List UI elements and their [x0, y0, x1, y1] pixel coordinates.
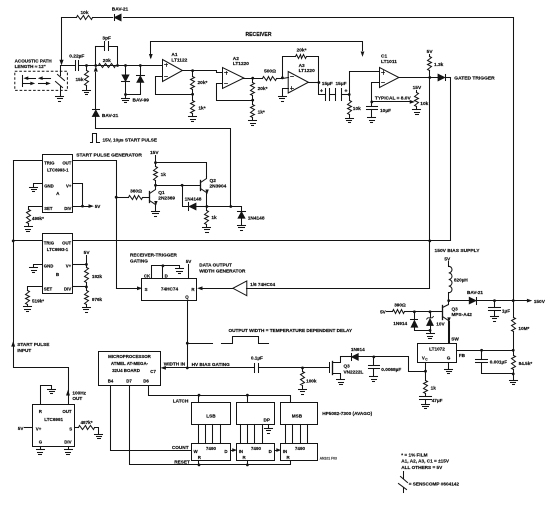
wire DIV B	[73, 286, 87, 288]
svg-text:SET: SET	[44, 206, 53, 211]
wire collector rail	[156, 163, 207, 177]
svg-text:OUT: OUT	[62, 160, 71, 165]
label CK D pins	[144, 273, 168, 278]
wire V+ B	[73, 264, 87, 266]
wire 150V out	[495, 299, 546, 305]
resistor 182k	[85, 265, 103, 287]
ground CK D tie	[176, 269, 184, 274]
diode 1N914 output	[341, 347, 374, 361]
resistor 10k after caps	[348, 95, 362, 118]
node start pulse to base	[115, 196, 118, 199]
node BAV-99 right	[139, 64, 142, 67]
ground DP	[265, 425, 273, 434]
wire gating line	[73, 240, 451, 242]
acoustic path arrows	[23, 76, 51, 87]
wire GND A	[34, 184, 43, 187]
legend transducer symbol	[399, 472, 408, 493]
wires mid display to 7490	[241, 425, 263, 444]
svg-text:INPUT: INPUT	[17, 348, 31, 353]
svg-text:B4: B4	[108, 379, 114, 384]
wire A1 output	[183, 71, 223, 73]
transistor Q3 MPS-A42	[431, 301, 473, 344]
svg-text:0.0068µF: 0.0068µF	[381, 367, 401, 372]
display MSB	[281, 403, 318, 425]
node C1 output	[428, 76, 431, 79]
diode BAV-21 gated trigger	[438, 74, 495, 81]
svg-text:TYPICAL = 8.0V: TYPICAL = 8.0V	[375, 95, 412, 101]
svg-text:MSB: MSB	[292, 414, 303, 419]
svg-text:RECEIVER-TRIGGER: RECEIVER-TRIGGER	[130, 252, 177, 257]
IC LTC6993-1 A	[43, 155, 73, 213]
svg-text:150V: 150V	[534, 299, 546, 305]
svg-text:1k: 1k	[431, 385, 437, 390]
supply 5V LTC6991	[18, 426, 33, 431]
svg-text:TRIG: TRIG	[44, 160, 55, 165]
IC 7490 a	[192, 444, 231, 461]
wire D6 latch	[149, 386, 291, 404]
svg-text:390Ω: 390Ω	[394, 302, 406, 307]
svg-text:START PULSE: START PULSE	[17, 342, 49, 347]
svg-text:BAV-99: BAV-99	[133, 98, 150, 104]
wire start pulse node	[207, 207, 242, 212]
supply 5V LTC6993 B	[84, 250, 91, 264]
svg-text:V+: V+	[36, 426, 42, 431]
label HV BIAS GATING	[192, 362, 231, 367]
svg-text:ACOUSTIC PATH: ACOUSTIC PATH	[15, 58, 53, 63]
capacitor 1uF	[489, 301, 511, 317]
svg-text:84.5k*: 84.5k*	[519, 361, 533, 366]
svg-text:47µF: 47µF	[432, 398, 443, 403]
node RECEIVER label line	[149, 32, 364, 59]
node DIV A	[81, 204, 101, 209]
svg-text:WIDTH GENERATOR: WIDTH GENERATOR	[199, 268, 246, 273]
svg-text:5V: 5V	[444, 257, 451, 263]
diode 1N4148 base clamp	[183, 186, 207, 211]
svg-text:2N3904: 2N3904	[210, 184, 227, 190]
ground LTC6993 A	[30, 188, 38, 192]
IC LTC6991	[33, 405, 75, 447]
IC 7490 c	[281, 444, 318, 461]
diode BAV-99 a	[122, 66, 130, 95]
wire inverter output to R	[198, 287, 233, 290]
svg-text:MICROPROCESSOR: MICROPROCESSOR	[108, 354, 152, 359]
resistor 10M*	[512, 301, 530, 351]
wire C1 output	[399, 77, 438, 79]
wire B4 count	[111, 386, 192, 451]
wire A3 output	[309, 82, 319, 84]
ground 1uF	[491, 317, 499, 322]
node zener bias	[429, 310, 432, 313]
svg-text:V+: V+	[66, 184, 72, 189]
ground VN2222L source	[337, 380, 345, 385]
node TRIG B bus	[12, 240, 15, 243]
wire A3 + input to ground	[283, 89, 289, 97]
node gating junction	[428, 240, 431, 243]
ground Q1 emitter	[152, 212, 160, 217]
note supply others	[401, 465, 443, 470]
resistor 100k	[301, 368, 317, 389]
node A1 output	[191, 69, 194, 72]
svg-text:SET: SET	[44, 286, 53, 291]
svg-text:TRIG: TRIG	[44, 240, 55, 245]
node Vc	[424, 370, 427, 373]
pulse symbol output width	[188, 337, 269, 344]
legend SENSCOMP label	[409, 481, 460, 486]
wire TRIG B to bus	[14, 240, 43, 242]
diode BAV-21 150V	[449, 290, 495, 305]
resistor 500 ohm	[263, 69, 283, 81]
wire gated trigger down	[450, 78, 452, 241]
node zener ground	[429, 329, 432, 332]
svg-text:D: D	[224, 449, 227, 454]
ground A2 divider	[249, 121, 257, 126]
svg-text:15V, 10µs START PULSE: 15V, 10µs START PULSE	[103, 137, 158, 142]
svg-text:LATCH: LATCH	[173, 399, 189, 404]
comparator C1 LT1011	[380, 54, 399, 88]
node 150V bus	[512, 299, 515, 302]
transistor Q1 2N2369	[144, 186, 176, 212]
svg-text:LTC6991: LTC6991	[44, 417, 63, 422]
svg-text:GND: GND	[44, 263, 54, 268]
node 84.5k bottom	[512, 373, 515, 376]
svg-text:D: D	[165, 273, 168, 278]
svg-text:BAV-21: BAV-21	[467, 290, 483, 295]
svg-text:5V: 5V	[18, 426, 25, 431]
wire OUT A	[73, 161, 117, 289]
svg-text:HP5082-7300 (AVAGO): HP5082-7300 (AVAGO)	[322, 411, 372, 416]
ground LTC6991 R	[48, 390, 56, 394]
svg-text:V+: V+	[66, 263, 72, 268]
svg-text:LTC6993-1: LTC6993-1	[47, 167, 69, 172]
resistor 519k* SET B	[26, 287, 45, 307]
ground 499k	[25, 227, 33, 232]
svg-text:5V: 5V	[95, 204, 102, 209]
receiver-trigger gating label	[130, 252, 177, 263]
svg-text:BAV-21: BAV-21	[112, 7, 129, 13]
node 15k tap	[85, 64, 88, 67]
op-amp A2 LT1220	[223, 56, 250, 89]
transistor Q2 2N3904	[201, 177, 227, 207]
node A3 output	[318, 81, 321, 84]
svg-text:HV BIAS GATING: HV BIAS GATING	[192, 362, 231, 367]
diode zener 10V	[427, 312, 446, 334]
op-amp A3 LT1220 (inverting top)	[288, 63, 315, 93]
wire base network	[415, 311, 431, 313]
ground LTC6991 DIV	[65, 447, 73, 455]
svg-text:1k*: 1k*	[258, 109, 265, 115]
wire G to ground	[448, 363, 450, 369]
wire gating to inverter input	[247, 288, 430, 290]
svg-text:DIV: DIV	[64, 206, 71, 211]
supply 5V 390 ohm	[380, 310, 392, 315]
IC 7490 b	[237, 444, 275, 461]
node A2 output	[251, 77, 254, 80]
svg-text:+: +	[344, 89, 347, 95]
node 15V rail	[154, 161, 157, 164]
node 1N914 bias	[413, 310, 416, 313]
svg-text:* = 1% FILM: * = 1% FILM	[401, 452, 427, 457]
diode BAV-99 b	[126, 66, 145, 95]
svg-text:BAV-21: BAV-21	[102, 113, 119, 119]
node Q3 collector	[447, 299, 450, 302]
node Q output width tap	[186, 342, 189, 345]
ground bias clamps	[427, 334, 435, 339]
svg-text:LSB: LSB	[206, 414, 216, 419]
svg-text:1µF: 1µF	[502, 308, 510, 313]
svg-text:ALL OTHERS = 5V: ALL OTHERS = 5V	[401, 465, 443, 470]
wire inductor to collector	[448, 293, 450, 301]
wire A2 output	[244, 78, 263, 80]
node reset 1	[198, 461, 201, 467]
node A3 input	[281, 76, 289, 79]
svg-text:D7: D7	[126, 379, 132, 384]
svg-text:499k*: 499k*	[32, 216, 44, 221]
svg-text:AN101 F03: AN101 F03	[320, 457, 337, 461]
ground LT1072 G	[445, 370, 453, 374]
transducer (SENSCOMP #604142)	[56, 66, 65, 97]
svg-text:Q3: Q3	[452, 307, 459, 312]
svg-text:= SENSCOMP #604142: = SENSCOMP #604142	[409, 481, 460, 486]
IC LTC6993-1 B	[43, 234, 73, 294]
wire A1 feedback	[156, 77, 193, 95]
svg-text:Q1: Q1	[158, 190, 165, 196]
svg-text:Q3: Q3	[344, 363, 351, 368]
ground A1 divider	[189, 117, 197, 122]
svg-text:5V: 5V	[186, 259, 193, 264]
wire transducer to A1 input	[61, 65, 163, 67]
svg-text:1N914: 1N914	[351, 347, 365, 352]
svg-text:15µF: 15µF	[322, 81, 333, 87]
resistor 20k* A3 feedback	[283, 48, 319, 83]
node BAV-99 ground	[124, 93, 149, 103]
label 100Hz OUT	[72, 390, 86, 401]
pulse symbol start pulse	[91, 134, 158, 143]
resistor 1.3k pullup	[427, 49, 444, 77]
transistor Q3 VN2222L	[330, 357, 364, 380]
wire A2 feedback	[217, 84, 253, 101]
svg-text:0.22µF: 0.22µF	[69, 54, 84, 60]
wires LSB to 7490	[199, 425, 221, 444]
svg-text:OUT: OUT	[72, 396, 82, 401]
svg-text:0.001µF: 0.001µF	[490, 360, 507, 365]
svg-text:2N2369: 2N2369	[158, 195, 175, 201]
wire feedback to transducer node	[60, 18, 63, 65]
svg-text:1N4148: 1N4148	[248, 215, 265, 221]
svg-text:DP: DP	[264, 418, 271, 423]
diode BAV-21 top	[112, 7, 129, 21]
svg-text:SW: SW	[451, 337, 459, 342]
ground 0.0068uF	[370, 377, 378, 382]
IC microprocessor ATMEL	[99, 352, 161, 386]
resistor 1k Q2 emitter	[205, 207, 218, 228]
node 20k left	[94, 64, 97, 67]
svg-text:10k: 10k	[80, 10, 88, 16]
ground 10uF	[368, 118, 376, 123]
potentiometer 10k threshold	[413, 85, 429, 110]
svg-text:RESET: RESET	[174, 460, 190, 465]
inductor 820uH	[449, 266, 469, 292]
node 0.0068uF	[372, 356, 375, 359]
node DIV B	[85, 286, 88, 289]
wire SW	[449, 322, 451, 344]
svg-text:DIV: DIV	[64, 286, 71, 291]
svg-text:OUT: OUT	[62, 240, 71, 245]
svg-text:LTC6993-1: LTC6993-1	[47, 247, 69, 252]
ground 100k	[299, 390, 307, 395]
node 15uF output	[348, 93, 351, 96]
svg-text:COUNT: COUNT	[172, 445, 189, 450]
wire top feedback line	[62, 17, 514, 19]
node latch mid	[246, 394, 249, 403]
svg-text:G: G	[39, 440, 43, 445]
diode 1N4148 clamp to ground	[238, 212, 265, 226]
ground 487k	[95, 435, 103, 439]
svg-text:IN: IN	[239, 449, 243, 454]
150V bias supply label	[435, 248, 481, 254]
wire D7 reset	[130, 386, 291, 465]
svg-text:10M*: 10M*	[518, 326, 529, 331]
wire C1 - input	[372, 83, 380, 107]
svg-text:ATMEL AT-MEGA-: ATMEL AT-MEGA-	[111, 361, 149, 366]
node 1uF	[493, 299, 496, 302]
svg-text:D6: D6	[143, 379, 149, 384]
wire Q output	[187, 301, 189, 368]
svg-text:MPS-A42: MPS-A42	[452, 312, 473, 317]
wire start pulse to injection	[96, 129, 231, 207]
wire S input	[117, 287, 142, 290]
wire DIV A	[73, 205, 94, 208]
wire to LT1072 Vc	[374, 357, 426, 372]
svg-text:A2: A2	[233, 56, 239, 62]
wire 7490 b to c	[275, 449, 281, 452]
capacitor 0.001uF	[476, 351, 514, 374]
svg-text:A1, A2, A3, C1 = ±15V: A1, A2, A3, C1 = ±15V	[401, 459, 450, 464]
svg-text:15V: 15V	[413, 85, 422, 91]
svg-text:DIV: DIV	[64, 440, 71, 445]
node Q2 emitter	[206, 205, 209, 208]
svg-text:LT1220: LT1220	[233, 61, 250, 67]
svg-text:Q: Q	[185, 295, 189, 300]
resistor 487k*	[75, 420, 99, 434]
wire 150V bus right side	[513, 18, 515, 301]
op-amp A1 LT1122	[163, 52, 188, 81]
svg-text:7490: 7490	[295, 446, 306, 451]
resistor 20k* A2	[251, 79, 268, 101]
svg-text:C7: C7	[150, 369, 156, 374]
capacitor 3pF feedback	[96, 36, 118, 66]
svg-text:VN2222L: VN2222L	[344, 369, 364, 374]
svg-text:A1: A1	[171, 52, 177, 58]
capacitor 15uF b	[330, 81, 350, 100]
node 20k right	[116, 64, 119, 67]
node V+ B	[85, 263, 88, 266]
ground 47uF	[422, 405, 430, 409]
node latch LSB	[198, 394, 201, 403]
node BAV-99 left	[124, 64, 127, 67]
resistor 20k* A1	[191, 71, 208, 95]
ground LTC6993 B	[30, 268, 38, 273]
acoustic path label	[15, 58, 53, 69]
node start pulse injection	[229, 205, 232, 208]
ground 15k	[83, 91, 91, 95]
svg-text:1k: 1k	[211, 215, 217, 221]
svg-text:487k*: 487k*	[81, 420, 93, 425]
svg-text:150V BIAS SUPPLY: 150V BIAS SUPPLY	[435, 248, 481, 254]
svg-text:519k*: 519k*	[32, 298, 44, 303]
svg-text:C1: C1	[381, 54, 387, 60]
wire Vc	[425, 363, 427, 372]
node Q1 collector	[154, 184, 157, 187]
svg-text:3pF: 3pF	[102, 36, 111, 42]
svg-text:S: S	[145, 287, 148, 292]
svg-text:LT1011: LT1011	[381, 59, 397, 65]
svg-text:+: +	[320, 89, 323, 95]
node 1N4148 tap	[181, 184, 184, 187]
svg-text:DATA OUTPUT: DATA OUTPUT	[199, 263, 232, 268]
wire 7490 a to b	[231, 449, 237, 452]
wire C1 out to gating line	[429, 78, 431, 289]
resistor 1k* A1	[191, 95, 206, 117]
node C1 threshold	[370, 101, 373, 104]
supply 15V start gen	[150, 150, 159, 163]
capacitor 0.0068uF	[369, 357, 402, 377]
svg-text:10µF: 10µF	[380, 108, 391, 114]
svg-text:5V: 5V	[380, 310, 387, 315]
resistor 20k	[96, 58, 118, 67]
svg-text:FB: FB	[459, 353, 466, 358]
capacitor 47uF	[420, 397, 443, 405]
svg-text:GATED TRIGGER: GATED TRIGGER	[454, 75, 495, 81]
wire FB	[457, 350, 514, 352]
IC 74HC74	[142, 279, 197, 301]
wire start pulse input bus	[12, 161, 70, 405]
resistor 10k top	[77, 10, 93, 20]
svg-text:1.3k: 1.3k	[434, 62, 444, 68]
resistor 360 ohm	[117, 189, 144, 200]
start pulse input label	[17, 342, 49, 353]
svg-text:START PULSE GENERATOR: START PULSE GENERATOR	[76, 152, 142, 158]
wire GND B	[34, 265, 43, 268]
svg-text:0.1µF: 0.1µF	[251, 355, 263, 360]
svg-text:32U4 BOARD: 32U4 BOARD	[112, 368, 140, 373]
node 100k gate	[301, 367, 304, 370]
ground Q2 emitter resistor	[203, 228, 211, 233]
ground 84.5k	[510, 374, 518, 385]
svg-text:D: D	[269, 449, 272, 454]
svg-text:GATING: GATING	[130, 258, 148, 263]
svg-text:7490: 7490	[251, 446, 262, 451]
supply 5V 74HC74	[186, 259, 193, 278]
node A2 divider	[251, 99, 254, 102]
svg-text:976k: 976k	[92, 297, 103, 302]
svg-text:LT1220: LT1220	[299, 68, 316, 74]
wires MSB to 7490	[286, 425, 308, 444]
capacitor 15uF a	[319, 81, 333, 100]
node D tie	[162, 264, 165, 267]
resistor 1k Vc	[424, 372, 437, 396]
svg-text:100Hz: 100Hz	[72, 390, 86, 395]
svg-text:OUT: OUT	[62, 409, 72, 414]
inverter 1/6 74HC04	[233, 281, 276, 296]
node reset 2	[246, 461, 249, 467]
resistor 15k	[75, 66, 88, 90]
svg-text:Q2: Q2	[210, 178, 217, 184]
capacitor 0.1uF	[251, 355, 303, 372]
note 1% film	[401, 452, 427, 457]
svg-text:7490: 7490	[206, 446, 217, 451]
acoustic path dashed box	[15, 71, 68, 90]
svg-text:A3: A3	[299, 63, 305, 69]
